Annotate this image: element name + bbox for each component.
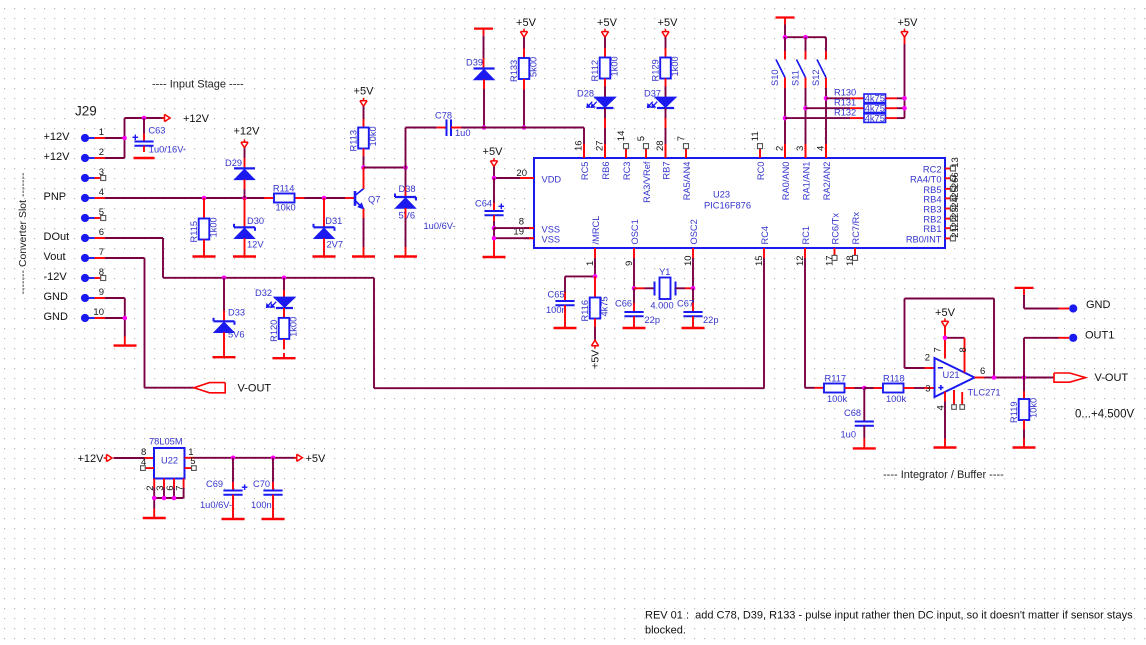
junction D33 tap <box>222 276 227 281</box>
svg-text:6: 6 <box>980 366 985 377</box>
svg-text:4: 4 <box>815 146 826 151</box>
svg-text:1k00: 1k00 <box>610 56 620 76</box>
pin RA5/AN4 7 (top) <box>676 136 692 200</box>
svg-text:C70: C70 <box>253 479 270 489</box>
junction C69 tap <box>231 456 236 461</box>
svg-text:28: 28 <box>655 140 666 151</box>
svg-text:+5V: +5V <box>590 350 602 369</box>
svg-text:VSS: VSS <box>542 224 561 234</box>
resistor R112 <box>590 37 620 86</box>
svg-text:RC0: RC0 <box>756 162 766 181</box>
wire RC1 to R117 <box>805 258 824 388</box>
svg-text:15: 15 <box>754 255 765 266</box>
junction output/R119 <box>1022 375 1027 380</box>
svg-text:1u0/6V-: 1u0/6V- <box>200 500 232 510</box>
svg-text:R133: R133 <box>509 60 519 82</box>
junction R130 bus <box>902 96 907 101</box>
wire C78 node to RC5 <box>451 128 584 159</box>
ground R115 <box>193 255 216 257</box>
ground J29 <box>114 344 137 346</box>
pin RA1/AN1 3 (top) <box>795 144 812 200</box>
ground U21 <box>934 446 957 448</box>
wire pins 1-2 to +12V rail <box>105 118 164 158</box>
pin RC1 12 (bottom) <box>795 226 811 266</box>
svg-text:DOut: DOut <box>44 231 70 243</box>
svg-text:U23: U23 <box>713 190 730 200</box>
diode D38 (zener 5V6) <box>395 184 416 257</box>
pin RC7/Rx 18 (bottom) <box>845 212 861 266</box>
svg-text:PNP: PNP <box>44 191 67 203</box>
supply +5V arrow (R112) <box>597 17 618 37</box>
svg-text:RA5/AN4: RA5/AN4 <box>682 162 692 201</box>
svg-text:1u0: 1u0 <box>841 430 857 440</box>
svg-text:R115: R115 <box>189 221 199 243</box>
supply +5V arrow (R133) <box>516 17 537 37</box>
svg-text:RB7: RB7 <box>662 162 672 180</box>
pin /MRCL 1 (bottom) <box>585 216 601 266</box>
resistor R132 <box>785 108 905 124</box>
junction output/feedback <box>992 375 997 380</box>
svg-text:R112: R112 <box>590 60 600 82</box>
ground C65 <box>554 327 577 329</box>
svg-text:4: 4 <box>935 405 946 410</box>
svg-text:V-OUT: V-OUT <box>1095 372 1129 384</box>
svg-text:blocked.: blocked. <box>645 624 686 636</box>
svg-text:+12V: +12V <box>234 126 261 138</box>
svg-text:D28: D28 <box>577 88 594 98</box>
supply +5V arrow (pullups) <box>898 17 919 37</box>
text revision note <box>645 609 1133 636</box>
wire D38 node vertical <box>406 128 447 198</box>
svg-text:Q7: Q7 <box>368 195 380 205</box>
svg-text:5k00: 5k00 <box>529 57 539 77</box>
ground C70 <box>262 518 285 520</box>
svg-text:+12V: +12V <box>78 453 105 465</box>
svg-text:23: 23 <box>950 207 961 218</box>
svg-text:8: 8 <box>958 347 969 352</box>
capacitor C68 <box>841 388 874 448</box>
pin VDD 20 <box>516 168 561 185</box>
pin RB0/INT 21 (right) <box>906 227 961 244</box>
net flag V-OUT (left) <box>194 382 271 394</box>
pin U22 6 <box>165 486 176 491</box>
connector J29 pin 1 <box>44 127 106 143</box>
svg-text:RA2/AN2: RA2/AN2 <box>822 162 832 201</box>
connector J29 pin 10 <box>44 307 106 323</box>
node GND <box>1069 299 1110 313</box>
resistor R114 <box>273 184 296 213</box>
junction R131 bus <box>902 106 907 111</box>
svg-text:S11: S11 <box>791 70 801 86</box>
svg-text:RA4/T0: RA4/T0 <box>910 174 942 184</box>
pin RB7 28 (top) <box>655 140 672 179</box>
wire OSC2 net <box>692 258 694 288</box>
switch S12 <box>811 37 826 158</box>
svg-text:C64: C64 <box>475 199 492 209</box>
supply +5V arrow (R129) <box>658 17 679 37</box>
junction VSS19 <box>492 236 497 241</box>
text Converter Slot <box>17 172 29 294</box>
resistor R117 <box>824 374 864 404</box>
junction C70 tap <box>271 456 276 461</box>
op-amp U21 <box>925 353 1001 398</box>
ground D38 <box>394 255 417 257</box>
supply +12V arrow (D29) <box>234 126 261 148</box>
junction Q7 collector <box>361 165 366 170</box>
pin U22 7 <box>174 486 185 491</box>
pin RC6/Tx 17 (bottom) <box>824 213 840 266</box>
svg-text:+12V: +12V <box>44 151 71 163</box>
capacitor C65 <box>546 276 575 328</box>
svg-text:R120: R120 <box>269 320 279 342</box>
diode D29 <box>225 158 255 198</box>
resistor R116 <box>580 276 610 340</box>
junction S10 tap <box>783 116 788 121</box>
capacitor C63 <box>133 125 187 154</box>
diode D33 (zener 5V6) <box>214 278 246 357</box>
svg-text:R119: R119 <box>1009 401 1019 423</box>
svg-text:2: 2 <box>925 353 930 364</box>
svg-text:PIC16F876: PIC16F876 <box>704 201 751 211</box>
svg-text:U21: U21 <box>943 370 960 380</box>
wire +12V to U22 pin8 <box>114 457 155 459</box>
wire collector to D38 <box>364 167 406 169</box>
pin U22 8 <box>141 447 146 458</box>
svg-text:13: 13 <box>950 157 961 168</box>
wire DOut net (pin6 to RC4) <box>105 238 764 388</box>
svg-text:6: 6 <box>950 172 961 177</box>
regulator U22 78L05M body <box>149 436 185 478</box>
junction D32 tap <box>282 276 287 281</box>
ground D33 <box>213 356 236 358</box>
diode D39 <box>466 36 495 128</box>
junction VSS8 <box>492 226 497 231</box>
pin U21 offset squares <box>952 405 965 410</box>
svg-text:RC1: RC1 <box>801 226 811 245</box>
pin RB1 22 (right) <box>923 217 960 234</box>
connector J29 label <box>75 104 97 119</box>
ground R120 <box>273 357 296 359</box>
capacitor C78 <box>435 110 471 138</box>
junction S12 tap <box>824 96 829 101</box>
svg-text:26: 26 <box>950 178 961 189</box>
wire U21 output <box>975 366 1055 377</box>
svg-text:7: 7 <box>933 347 944 352</box>
wire GND node <box>1024 295 1069 309</box>
ground Q7 <box>352 255 375 257</box>
resistor R129 <box>651 37 681 86</box>
svg-text:REV 01 : add C78, D39, R133 -: REV 01 : add C78, D39, R133 - pulse inpu… <box>645 609 1133 621</box>
pin RB2 23 (right) <box>923 207 960 224</box>
svg-text:TLC271: TLC271 <box>968 388 1001 398</box>
svg-text:4k75: 4k75 <box>865 94 885 104</box>
svg-text:1k00: 1k00 <box>209 217 219 237</box>
svg-text:GND: GND <box>44 291 69 303</box>
svg-text:Vout: Vout <box>44 251 66 263</box>
pin RA0/AN0 2 (top) <box>774 144 791 200</box>
svg-text:+5V: +5V <box>597 17 618 29</box>
svg-text:+5V: +5V <box>658 17 679 29</box>
svg-text:C78: C78 <box>435 110 452 120</box>
junction S11 tap <box>803 106 808 111</box>
pin RC5 16 (top) <box>573 140 590 180</box>
led D32 <box>255 278 295 318</box>
svg-text:+5V: +5V <box>516 17 537 29</box>
svg-text:R130: R130 <box>834 88 856 98</box>
ground R119 <box>1013 446 1036 448</box>
pin RA2/AN2 4 (top) <box>815 144 832 200</box>
svg-text:4: 4 <box>99 187 104 198</box>
wire OSC1 net <box>633 258 635 288</box>
svg-text:RC5: RC5 <box>580 162 590 181</box>
wire U22 ground pins <box>154 479 183 519</box>
svg-text:+12V: +12V <box>183 113 210 125</box>
svg-text:VDD: VDD <box>542 174 562 184</box>
connector J29 pin 9 <box>44 287 106 303</box>
svg-text:10k0: 10k0 <box>368 126 378 146</box>
svg-text:R114: R114 <box>273 184 295 194</box>
svg-text:5: 5 <box>636 136 647 141</box>
svg-text:4k75: 4k75 <box>600 296 610 316</box>
wire pins 9-10 to ground <box>105 298 125 346</box>
pin RB5 26 (right) <box>923 178 960 195</box>
svg-text:R132: R132 <box>834 108 856 118</box>
switch S11 <box>791 37 806 158</box>
svg-text:J29: J29 <box>75 104 97 119</box>
supply +5V arrow (U22 out) <box>294 453 326 465</box>
supply +5V arrow (R113) <box>354 86 375 107</box>
svg-text:7: 7 <box>676 136 687 141</box>
svg-text:9: 9 <box>99 287 104 298</box>
junction OSC1 <box>632 286 637 291</box>
svg-text:/MRCL: /MRCL <box>591 216 601 245</box>
pin RC0 11 (top) <box>750 131 766 180</box>
junction R133 bottom <box>522 125 527 130</box>
svg-text:27: 27 <box>594 140 605 151</box>
junction C63 tap <box>142 116 147 121</box>
svg-text:V-OUT: V-OUT <box>238 382 272 394</box>
svg-text:4.000: 4.000 <box>650 300 673 310</box>
svg-text:18: 18 <box>845 255 856 266</box>
svg-text:5V6: 5V6 <box>228 330 245 340</box>
svg-text:5V6: 5V6 <box>399 210 416 220</box>
ground C66 <box>623 327 646 329</box>
svg-text:22: 22 <box>950 217 961 228</box>
svg-text:OSC1: OSC1 <box>630 219 640 244</box>
svg-text:GND: GND <box>44 311 69 323</box>
pin VSS 8 <box>519 217 560 235</box>
svg-text:D33: D33 <box>228 308 245 318</box>
svg-text:4k75: 4k75 <box>865 103 885 113</box>
svg-text:RA0/AN0: RA0/AN0 <box>781 162 791 201</box>
wire U21 pin4 to ground <box>935 390 962 448</box>
svg-text:1: 1 <box>99 127 104 138</box>
resistor R113 <box>349 106 379 167</box>
wire U22 output rail <box>195 457 297 459</box>
svg-text:1k00: 1k00 <box>289 317 299 337</box>
svg-text:14: 14 <box>616 131 627 142</box>
capacitor C64 <box>424 178 505 231</box>
svg-text:RB1: RB1 <box>923 224 941 234</box>
wire VDD net <box>494 167 520 179</box>
svg-text:-12V: -12V <box>44 271 68 283</box>
svg-text:C65: C65 <box>548 290 565 300</box>
supply +12V arrow (input rail) <box>162 113 210 125</box>
capacitor C70 <box>251 458 283 519</box>
pin U22 3 <box>155 486 166 491</box>
svg-text:2V7: 2V7 <box>327 240 344 250</box>
text output range <box>1075 409 1134 421</box>
connector J29 pin 8 <box>44 267 106 283</box>
svg-text:12V: 12V <box>247 240 264 250</box>
capacitor C66 <box>615 288 660 328</box>
wire pullup bus to +5V <box>904 37 906 118</box>
svg-text:+5V: +5V <box>483 146 504 158</box>
wire switch gnd rail <box>785 25 826 38</box>
svg-text:RA1/AN1: RA1/AN1 <box>802 162 812 201</box>
pin RC4 15 (bottom) <box>754 226 770 266</box>
svg-text:D32: D32 <box>255 288 272 298</box>
diode D31 (zener 2V7) <box>314 198 344 257</box>
svg-text:+5V: +5V <box>935 307 956 319</box>
net flag V-OUT (right) <box>1054 372 1128 384</box>
junction D31 top <box>322 196 327 201</box>
capacitor C69 <box>200 458 247 519</box>
resistor R119 <box>1009 378 1039 448</box>
svg-text:GND: GND <box>1086 299 1111 311</box>
wire D29 top <box>244 148 246 169</box>
svg-text:C63: C63 <box>148 125 165 135</box>
resistor R118 <box>864 374 934 404</box>
svg-text:D37: D37 <box>644 88 661 98</box>
svg-text:+5V: +5V <box>354 86 375 98</box>
capacitor C67 <box>677 288 719 328</box>
svg-text:3: 3 <box>925 383 930 394</box>
wire OUT1 net <box>1024 338 1069 378</box>
svg-text:1u0/6V-: 1u0/6V- <box>424 221 456 231</box>
connector J29 pin 4 <box>44 187 106 203</box>
svg-text:+5V: +5V <box>306 453 327 465</box>
svg-text:RC6/Tx: RC6/Tx <box>831 213 841 245</box>
svg-text:100n: 100n <box>546 305 567 315</box>
pin U22 4 <box>141 457 154 471</box>
led D37 <box>644 87 676 159</box>
svg-text:RC4: RC4 <box>760 226 770 245</box>
svg-text:S12: S12 <box>811 69 821 86</box>
ground U22 <box>143 517 166 519</box>
diode D30 (zener 12V) <box>234 198 264 257</box>
svg-text:RB0/INT: RB0/INT <box>906 234 942 244</box>
connector J29 pin 2 <box>44 147 106 163</box>
svg-text:21: 21 <box>950 227 961 238</box>
svg-text:3: 3 <box>795 146 806 151</box>
junction R117/C68 <box>862 386 867 391</box>
svg-text:R129: R129 <box>651 59 661 81</box>
supply +5V arrow (R116, inverted) <box>590 340 602 369</box>
pin RA4/T0 6 (right) <box>910 172 961 184</box>
svg-text:RC2: RC2 <box>923 165 942 175</box>
svg-text:11: 11 <box>750 131 761 141</box>
svg-text:RA3/VRef: RA3/VRef <box>642 161 652 203</box>
svg-text:R131: R131 <box>834 98 856 108</box>
ground C68 <box>853 447 876 449</box>
connector J29 pin 7 <box>44 247 106 263</box>
svg-text:R118: R118 <box>883 374 905 384</box>
junction D39 bottom <box>482 125 487 130</box>
svg-text:C66: C66 <box>615 299 632 309</box>
junction U22 gnd b <box>162 496 167 501</box>
wire Vout net (pin7 to V-OUT) <box>105 258 194 388</box>
text Input Stage <box>152 79 244 91</box>
svg-text:R116: R116 <box>580 300 590 322</box>
svg-text:78L05M: 78L05M <box>149 436 183 446</box>
ground C63 <box>134 157 155 159</box>
connector J29 pin 6 <box>44 227 106 243</box>
pin RB3 24 (right) <box>923 197 960 214</box>
led D28 <box>577 87 615 159</box>
svg-text:100k: 100k <box>886 394 907 404</box>
ground symbol (GND node) <box>1015 288 1034 295</box>
svg-text:100n: 100n <box>251 500 272 510</box>
svg-text:C67: C67 <box>677 299 694 309</box>
svg-text:RB3: RB3 <box>923 205 941 215</box>
svg-text:OUT1: OUT1 <box>1085 330 1114 342</box>
svg-text:C68: C68 <box>844 408 861 418</box>
junction VDD <box>492 176 497 181</box>
junction MRCL <box>593 274 598 279</box>
junction U22 gnd c <box>172 496 177 501</box>
svg-text:+12V: +12V <box>44 131 71 143</box>
svg-text:RC7/Rx: RC7/Rx <box>851 212 861 245</box>
svg-text:---- Integrator / Buffer ----: ---- Integrator / Buffer ---- <box>883 469 1004 481</box>
svg-text:1u0: 1u0 <box>455 128 471 138</box>
wire feedback loop <box>905 299 995 378</box>
junction S11 rail <box>803 35 808 40</box>
wire PNP net <box>105 197 355 199</box>
svg-text:RB2: RB2 <box>923 215 941 225</box>
svg-text:------- Converter Slot -------: ------- Converter Slot ------- <box>17 172 29 294</box>
supply +12V arrow (U22) <box>78 453 113 465</box>
resistor R133 <box>509 37 539 127</box>
pin RB4 25 (right) <box>923 187 960 204</box>
svg-text:1u0/16V-: 1u0/16V- <box>149 145 186 155</box>
junction U22 gnd a <box>152 496 157 501</box>
ground C67 <box>682 327 705 329</box>
svg-text:RB5: RB5 <box>923 185 941 195</box>
svg-text:D38: D38 <box>399 184 416 194</box>
pin OSC2 10 (bottom) <box>683 219 699 266</box>
svg-text:OSC2: OSC2 <box>689 219 699 244</box>
svg-text:+5V: +5V <box>898 17 919 29</box>
svg-text:16: 16 <box>573 140 584 151</box>
svg-text:7: 7 <box>99 247 104 258</box>
ground D31 <box>313 255 336 257</box>
junction pin1 rail <box>122 136 127 141</box>
junction D38 node <box>403 165 408 170</box>
svg-text:4k75: 4k75 <box>865 113 885 123</box>
svg-text:10: 10 <box>93 307 104 318</box>
pin U22 2 <box>145 486 156 491</box>
svg-text:U22: U22 <box>161 456 178 466</box>
wire U21 pin7/pin8 <box>933 327 969 373</box>
ground symbol above switches <box>776 18 795 25</box>
transistor Q7 <box>355 168 380 257</box>
svg-text:7: 7 <box>174 486 185 491</box>
svg-text:Y1: Y1 <box>659 267 670 277</box>
svg-text:RB4: RB4 <box>923 194 941 204</box>
crystal Y1 <box>634 267 693 310</box>
svg-text:22p: 22p <box>645 315 661 325</box>
